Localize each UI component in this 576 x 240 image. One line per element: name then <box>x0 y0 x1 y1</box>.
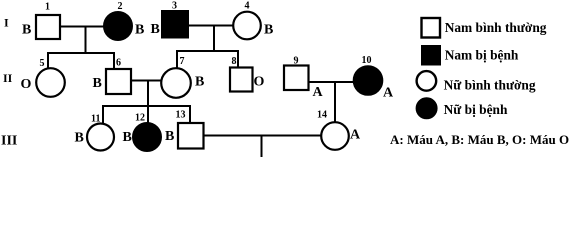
svg-text:12: 12 <box>135 113 145 124</box>
svg-text:Nam bình thường: Nam bình thường <box>445 20 547 35</box>
individual 10: affected female circle <box>354 66 383 95</box>
svg-text:2: 2 <box>118 1 123 12</box>
wire spouse line 9-10 <box>309 81 355 83</box>
individual 8: normal male square <box>230 68 253 92</box>
svg-text:8: 8 <box>232 56 237 67</box>
svg-text:7: 7 <box>180 56 185 67</box>
svg-text:B: B <box>151 22 160 37</box>
svg-text:6: 6 <box>116 58 121 69</box>
svg-text:14: 14 <box>317 110 327 121</box>
individual 7: normal female circle <box>161 68 191 98</box>
individual 12: affected female circle <box>133 123 161 151</box>
svg-text:III: III <box>1 134 17 149</box>
svg-text:Nữ bình thường: Nữ bình thường <box>444 78 536 93</box>
svg-text:B: B <box>93 76 102 91</box>
wire drop to individual 14 <box>334 82 336 123</box>
svg-text:II: II <box>3 71 13 85</box>
wire drop to individual 5 <box>47 52 49 69</box>
individual 13: normal male square <box>178 123 204 149</box>
svg-text:A: Máu A, B: Máu B, O: Máu O: A: Máu A, B: Máu B, O: Máu O <box>390 132 569 147</box>
svg-text:B: B <box>264 23 273 38</box>
wire spouse line 13-14 <box>204 135 322 137</box>
wire sibling line family 1-2 <box>47 52 115 54</box>
individual 5: normal female circle <box>36 68 65 97</box>
wire drop to individual 6 <box>113 52 115 69</box>
svg-text:4: 4 <box>245 1 250 12</box>
individual 6: normal male square <box>106 69 131 94</box>
wire drop to individual 12 <box>147 105 149 124</box>
svg-text:O: O <box>21 77 32 92</box>
wire drop to individual 13 <box>189 105 191 124</box>
svg-text:B: B <box>135 23 144 38</box>
svg-text:A: A <box>383 86 394 101</box>
individual 2: affected female circle <box>104 12 132 40</box>
legend: affected female symbol <box>417 98 437 118</box>
svg-text:3: 3 <box>172 1 177 12</box>
individual 14: normal female circle <box>321 122 349 150</box>
svg-text:A: A <box>313 85 324 100</box>
svg-text:Nam bị bệnh: Nam bị bệnh <box>445 48 519 63</box>
individual 4: normal female circle <box>233 12 261 40</box>
wire spouse line 1-2 <box>61 26 105 28</box>
svg-text:Nữ bị bệnh: Nữ bị bệnh <box>444 102 508 117</box>
individual 3: affected male square <box>162 11 188 38</box>
svg-text:5: 5 <box>40 58 45 69</box>
svg-text:9: 9 <box>294 56 299 67</box>
wire drop to individual 11 <box>102 105 104 124</box>
svg-text:B: B <box>165 129 174 144</box>
wire spouse line 3-4 <box>188 25 233 27</box>
legend: normal male symbol <box>422 18 441 38</box>
svg-text:11: 11 <box>91 114 100 125</box>
svg-text:B: B <box>123 130 132 145</box>
wire sibling line family 3-4 <box>176 50 239 52</box>
wire drop from couple 13-14 (cut off at bottom) <box>261 136 263 158</box>
wire drop from couple 6-7 <box>147 81 149 108</box>
svg-text:I: I <box>4 16 9 30</box>
svg-text:10: 10 <box>362 55 372 66</box>
legend: normal female symbol <box>417 71 437 91</box>
svg-text:B: B <box>22 23 31 38</box>
svg-text:A: A <box>350 128 361 143</box>
wire drop from couple 3-4 <box>213 26 215 53</box>
svg-text:B: B <box>75 131 84 146</box>
svg-text:1: 1 <box>45 2 50 13</box>
wire drop to individual 8 <box>237 50 239 68</box>
legend: affected male symbol <box>422 46 440 65</box>
wire drop to individual 7 <box>176 50 178 69</box>
individual 9: normal male square <box>284 66 309 91</box>
wire spouse line 6-7 <box>132 80 162 82</box>
svg-text:13: 13 <box>176 110 186 121</box>
individual 1: normal male square <box>36 15 60 39</box>
svg-text:O: O <box>254 75 265 90</box>
individual 11: normal female circle <box>87 124 114 151</box>
wire drop from couple 1-2 <box>85 27 87 55</box>
svg-text:B: B <box>195 75 204 90</box>
wire sibling line family 6-7 <box>102 105 191 107</box>
